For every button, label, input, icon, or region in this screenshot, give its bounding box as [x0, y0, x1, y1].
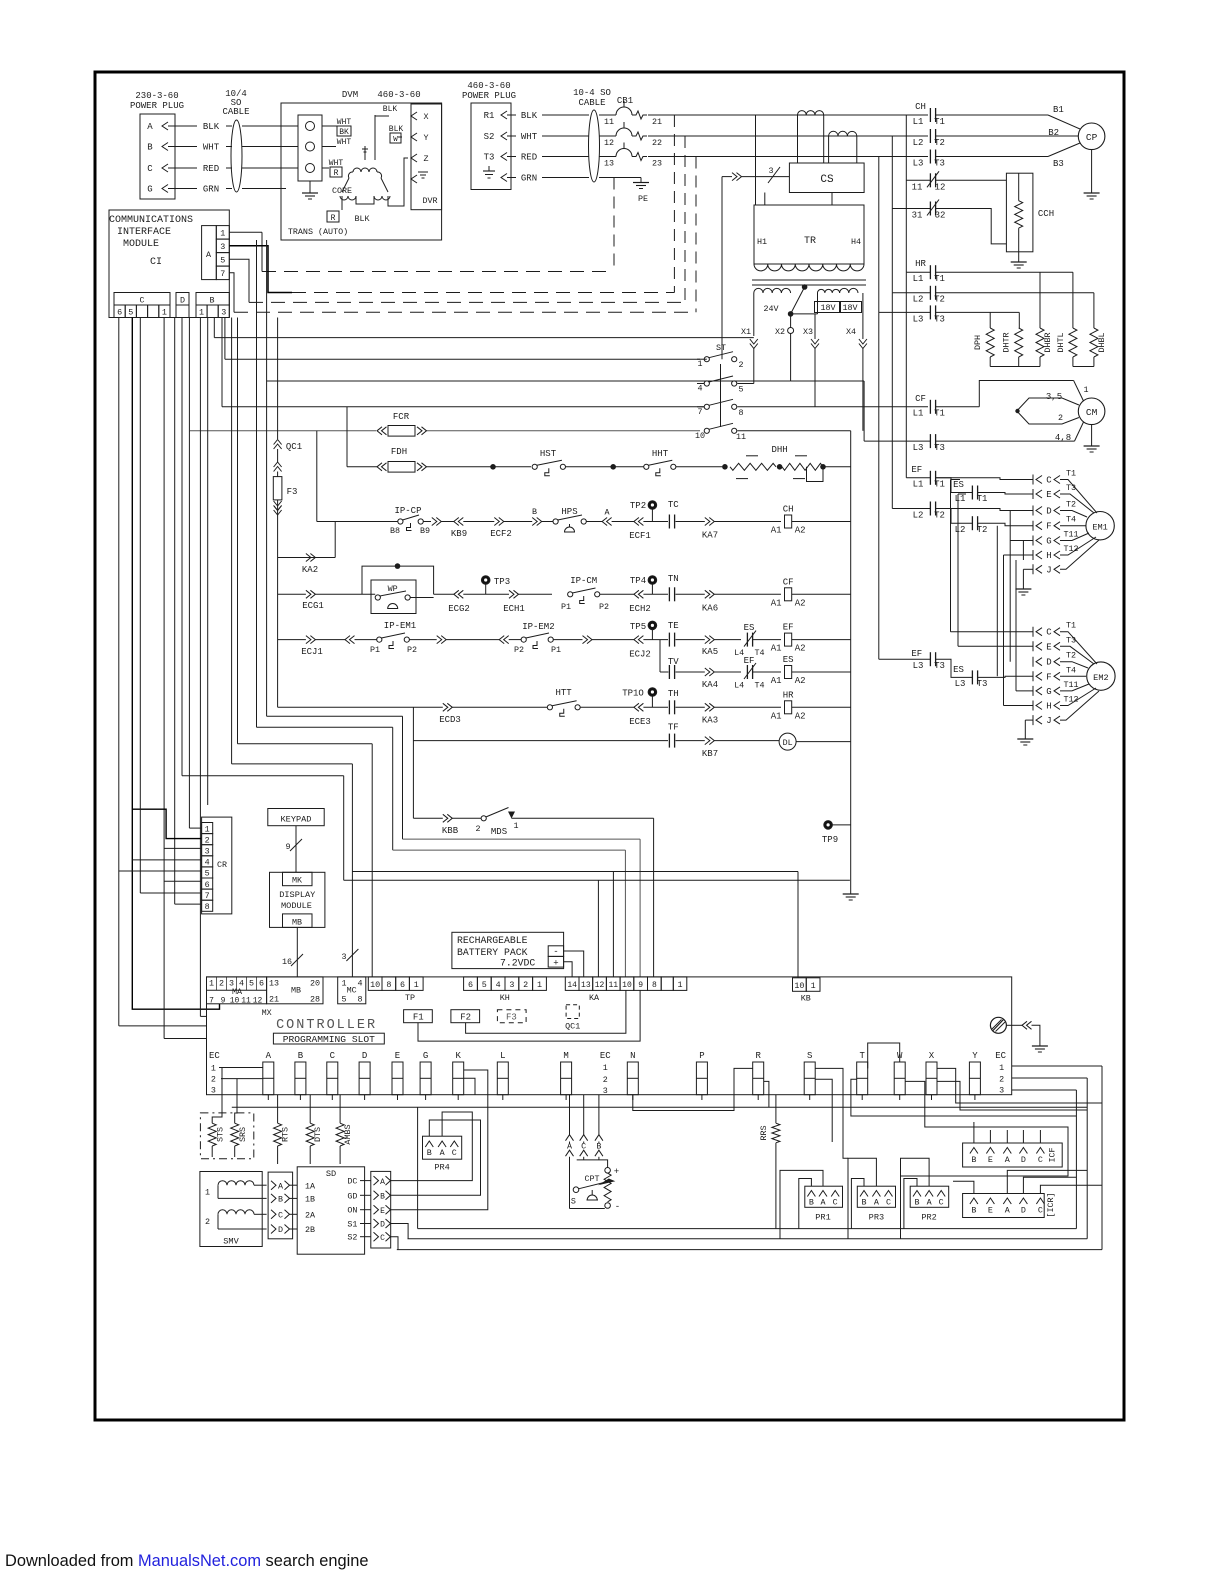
- svg-text:MK: MK: [292, 876, 303, 886]
- communications interface module CI: [109, 210, 229, 318]
- secondary windings 18V 18V: [818, 289, 840, 293]
- svg-text:F3: F3: [287, 487, 298, 497]
- svg-text:HR: HR: [915, 259, 926, 269]
- svg-text:RED: RED: [203, 164, 219, 174]
- svg-text:1: 1: [209, 979, 214, 989]
- svg-text:DVM: DVM: [342, 90, 358, 100]
- svg-text:1: 1: [199, 307, 204, 317]
- svg-text:E: E: [395, 1051, 400, 1061]
- wire R stub jog to bus: [764, 1081, 769, 1107]
- svg-text:A: A: [206, 250, 212, 260]
- core ground: [309, 181, 311, 188]
- svg-text:3: 3: [221, 307, 226, 317]
- svg-text:A2: A2: [795, 711, 806, 721]
- svg-text:2: 2: [205, 835, 210, 845]
- svg-text:COMMUNICATIONS: COMMUNICATIONS: [109, 215, 193, 226]
- svg-text:KA4: KA4: [702, 680, 718, 690]
- svg-text:T1: T1: [1066, 621, 1076, 631]
- svg-text:POWER PLUG: POWER PLUG: [462, 91, 516, 101]
- svg-text:MC: MC: [347, 986, 357, 996]
- svg-text:6: 6: [259, 979, 264, 989]
- svg-text:A: A: [1005, 1206, 1011, 1216]
- svg-text:C: C: [380, 1234, 385, 1243]
- heater bottom bus: [989, 357, 991, 367]
- svg-text:L2: L2: [955, 525, 966, 535]
- svg-text:B: B: [298, 1051, 304, 1061]
- wire S stub jogs: [815, 1068, 848, 1158]
- connector C strip of CI: [114, 293, 170, 306]
- svg-text:CR: CR: [217, 860, 227, 870]
- svg-text:ICF: ICF: [1048, 1147, 1058, 1162]
- terminal strip KH: [464, 977, 478, 991]
- svg-text:2B: 2B: [305, 1225, 315, 1235]
- svg-text:TH: TH: [668, 689, 679, 699]
- svg-text:5: 5: [128, 307, 133, 317]
- svg-text:A: A: [266, 1051, 272, 1061]
- svg-text:C: C: [939, 1198, 944, 1208]
- wire loop around ICF from W stub: [900, 1081, 1068, 1176]
- svg-text:TP5: TP5: [630, 622, 646, 632]
- svg-text:RRS: RRS: [759, 1125, 769, 1140]
- svg-text:EF: EF: [911, 465, 922, 475]
- autotransformer Y coils: [364, 146, 366, 160]
- svg-text:T4: T4: [1066, 515, 1076, 525]
- svg-text:X4: X4: [846, 327, 856, 337]
- defrost heaters DPH DHTR DHBR DHTL DHBL: [936, 271, 1073, 273]
- svg-text:MB: MB: [291, 986, 301, 996]
- svg-text:L4: L4: [734, 681, 744, 691]
- svg-text:T3: T3: [484, 153, 495, 163]
- svg-text:INTERFACE: INTERFACE: [117, 227, 171, 238]
- svg-text:11: 11: [604, 117, 614, 127]
- svg-text:S2: S2: [484, 132, 495, 142]
- svg-text:FDH: FDH: [391, 447, 407, 457]
- svg-text:KA: KA: [589, 993, 600, 1003]
- svg-text:2: 2: [205, 1217, 210, 1227]
- svg-text:A: A: [874, 1198, 880, 1208]
- grounding lug with arrow: [990, 1017, 1006, 1033]
- wire phase bus L1: [648, 114, 928, 116]
- secondary winding 24V: [754, 288, 791, 293]
- svg-text:9: 9: [221, 997, 226, 1006]
- svg-text:X: X: [929, 1051, 935, 1061]
- svg-text:DISPLAY: DISPLAY: [279, 890, 315, 900]
- contact L2-T2 first: [929, 502, 931, 516]
- svg-text:F: F: [1046, 672, 1051, 682]
- svg-text:E: E: [380, 1207, 385, 1216]
- svg-text:RECHARGEABLE: RECHARGEABLE: [457, 935, 528, 946]
- EC1 EC2 wires to A stub and sensors: [219, 1067, 263, 1069]
- svg-text:TP4: TP4: [630, 576, 646, 586]
- svg-text:A2: A2: [795, 526, 806, 536]
- svg-text:Z: Z: [423, 154, 428, 164]
- svg-text:EC: EC: [209, 1051, 220, 1061]
- SD output wire D to bus: [391, 1224, 408, 1239]
- wire F2 to KA10: [466, 990, 626, 1033]
- svg-text:ES: ES: [953, 665, 964, 675]
- svg-text:ECH2: ECH2: [629, 604, 651, 614]
- svg-text:T3: T3: [934, 443, 945, 453]
- svg-text:3: 3: [509, 980, 514, 990]
- wire loop3 from T stub around ICR: [417, 1107, 419, 1228]
- svg-text:H: H: [1046, 702, 1051, 712]
- svg-text:T1: T1: [934, 274, 945, 284]
- stub tail wires: [267, 1095, 269, 1100]
- current sensor pickup coil on L1: [798, 111, 824, 115]
- svg-text:13: 13: [604, 159, 614, 169]
- programming slot: [273, 1033, 384, 1044]
- svg-text:P2: P2: [514, 645, 524, 655]
- svg-text:A: A: [820, 1198, 826, 1208]
- svg-text:11: 11: [608, 981, 618, 990]
- svg-text:KB7: KB7: [702, 749, 718, 759]
- connector CR: [202, 817, 232, 914]
- svg-text:7: 7: [220, 269, 225, 279]
- SD output connector strip: [371, 1171, 391, 1248]
- svg-text:ECD3: ECD3: [439, 715, 461, 725]
- svg-text:SMV: SMV: [223, 1237, 239, 1247]
- ground at CM: [1091, 425, 1093, 441]
- svg-text:ST: ST: [716, 343, 726, 353]
- svg-text:6: 6: [205, 880, 210, 890]
- svg-text:T2: T2: [977, 525, 988, 535]
- plug PR1: [805, 1186, 843, 1207]
- svg-text:DHTL: DHTL: [1056, 332, 1066, 352]
- svg-text:12: 12: [604, 138, 614, 148]
- svg-text:GRN: GRN: [521, 174, 537, 184]
- svg-text:TN: TN: [668, 574, 679, 584]
- svg-text:5: 5: [482, 980, 487, 990]
- PE ground: [599, 177, 641, 179]
- svg-text:EM1: EM1: [1092, 523, 1107, 533]
- svg-text:D: D: [278, 1225, 283, 1235]
- svg-text:CB1: CB1: [617, 96, 633, 106]
- svg-text:A: A: [440, 1148, 446, 1158]
- svg-text:CS: CS: [820, 174, 834, 186]
- svg-text:X: X: [423, 112, 428, 122]
- svg-text:8: 8: [205, 902, 210, 912]
- svg-text:GRN: GRN: [203, 185, 219, 195]
- svg-text:HHT: HHT: [652, 449, 669, 459]
- terminal strip MB: [267, 977, 323, 1004]
- svg-text:R: R: [755, 1051, 761, 1061]
- wires 460 plug to 10-4 cable: [507, 114, 516, 116]
- svg-text:11: 11: [912, 183, 923, 193]
- capacitor TV branch: [659, 640, 661, 672]
- svg-text:HTT: HTT: [555, 688, 572, 698]
- svg-text:DHBR: DHBR: [1043, 332, 1053, 352]
- svg-text:DVR: DVR: [422, 196, 437, 206]
- svg-text:T11: T11: [1063, 680, 1078, 690]
- svg-text:10-4 SO: 10-4 SO: [573, 88, 611, 98]
- wires plug to 10/4 cable: [168, 125, 197, 127]
- svg-text:-: -: [615, 1202, 620, 1212]
- terminal strip MA: [207, 977, 267, 1004]
- svg-text:C: C: [1046, 628, 1052, 638]
- svg-text:M: M: [563, 1051, 568, 1061]
- svg-text:KB9: KB9: [451, 529, 467, 539]
- socket QC1 dashed: [566, 1005, 579, 1019]
- svg-text:BLK: BLK: [521, 111, 538, 121]
- svg-text:A2: A2: [795, 676, 806, 686]
- svg-text:A: A: [604, 508, 610, 518]
- svg-text:2A: 2A: [305, 1211, 316, 1221]
- PR1 feed hooks: [799, 1179, 812, 1229]
- svg-text:X1: X1: [741, 327, 751, 337]
- svg-text:A: A: [380, 1178, 385, 1187]
- svg-text:7: 7: [205, 891, 210, 901]
- svg-text:B8: B8: [390, 526, 400, 536]
- svg-text:8: 8: [386, 980, 391, 990]
- svg-text:KA3: KA3: [702, 716, 718, 726]
- svg-text:D: D: [180, 296, 185, 306]
- svg-text:B: B: [147, 143, 153, 153]
- svg-text:13: 13: [269, 979, 279, 989]
- svg-text:E: E: [1046, 642, 1051, 652]
- svg-text:P2: P2: [599, 602, 609, 612]
- row KBB MDS: [413, 817, 442, 819]
- svg-text:D: D: [362, 1051, 367, 1061]
- ladder right rail: [850, 431, 852, 889]
- svg-text:6: 6: [117, 307, 122, 317]
- svg-text:B: B: [380, 1193, 385, 1202]
- svg-text:11: 11: [736, 432, 746, 442]
- svg-text:C: C: [452, 1148, 457, 1158]
- SMV connector strip: [268, 1172, 293, 1239]
- misc stub routing: [464, 1078, 475, 1094]
- wire T stub to W stub loop: [868, 1043, 900, 1068]
- svg-text:T2: T2: [934, 511, 945, 521]
- row TF KB7 DL: [413, 740, 668, 742]
- wire X2 riser: [791, 380, 865, 382]
- svg-text:PR3: PR3: [869, 1213, 884, 1223]
- svg-text:F3: F3: [506, 1013, 517, 1023]
- svg-text:MB: MB: [292, 918, 302, 928]
- row ECD3/KA3: HTT TP10 ECE3 TH HR coil: [278, 706, 443, 708]
- svg-text:P2: P2: [407, 645, 417, 655]
- svg-text:PROGRAMMING SLOT: PROGRAMMING SLOT: [283, 1034, 375, 1045]
- svg-text:A: A: [567, 1142, 573, 1152]
- svg-text:S1: S1: [347, 1220, 357, 1230]
- svg-text:10: 10: [794, 981, 804, 991]
- vertical bus QC1-F3: [277, 318, 279, 440]
- SD output wire B to PR4: [391, 1120, 481, 1195]
- svg-text:T4: T4: [754, 681, 764, 691]
- svg-text:20: 20: [310, 979, 320, 989]
- wire N stub to R stub: [633, 1068, 753, 1110]
- svg-text:CABLE: CABLE: [578, 98, 605, 108]
- svg-text:B: B: [532, 507, 537, 517]
- svg-text:460-3-60: 460-3-60: [377, 90, 420, 100]
- relay coil EF: [785, 633, 792, 646]
- svg-text:2: 2: [738, 360, 743, 370]
- svg-text:ECF2: ECF2: [490, 529, 512, 539]
- svg-text:18V: 18V: [820, 303, 835, 313]
- svg-text:GD: GD: [347, 1191, 357, 1201]
- svg-text:3,5: 3,5: [1046, 392, 1062, 402]
- ground below CCH: [1018, 252, 1020, 257]
- sensor AMBS: [336, 1123, 344, 1146]
- svg-text:7: 7: [697, 407, 702, 417]
- svg-text:A: A: [927, 1198, 933, 1208]
- fuse F3: [274, 462, 282, 472]
- svg-text:ECJ2: ECJ2: [629, 650, 651, 660]
- svg-text:5: 5: [738, 385, 743, 395]
- svg-text:4: 4: [496, 980, 501, 990]
- svg-text:23: 23: [652, 159, 662, 169]
- svg-text:KB: KB: [801, 994, 811, 1004]
- svg-text:WHT: WHT: [337, 138, 352, 147]
- svg-text:KH: KH: [500, 993, 510, 1003]
- svg-text:460-3-60: 460-3-60: [467, 81, 510, 91]
- svg-text:D: D: [1046, 658, 1051, 668]
- svg-text:ECG1: ECG1: [302, 601, 324, 611]
- svg-text:D: D: [380, 1221, 385, 1230]
- svg-text:[ICR]: [ICR]: [1046, 1192, 1056, 1217]
- svg-text:T3: T3: [934, 159, 945, 169]
- svg-text:CH: CH: [915, 102, 926, 112]
- svg-text:A2: A2: [795, 644, 806, 654]
- svg-text:6: 6: [400, 980, 405, 990]
- svg-text:W: W: [393, 136, 398, 144]
- svg-text:T1: T1: [934, 480, 945, 490]
- svg-text:C: C: [833, 1198, 838, 1208]
- border frame: [95, 72, 1124, 1420]
- svg-text:R1: R1: [484, 111, 495, 121]
- svg-text:Y: Y: [972, 1051, 978, 1061]
- svg-text:C: C: [139, 296, 144, 306]
- svg-text:7: 7: [209, 997, 214, 1006]
- svg-text:RTS: RTS: [281, 1127, 291, 1142]
- svg-text:B: B: [971, 1155, 976, 1165]
- svg-text:HPS: HPS: [561, 507, 577, 517]
- svg-text:3: 3: [341, 952, 346, 962]
- svg-text:1: 1: [211, 1064, 216, 1074]
- feed rails for aux contacts: [905, 115, 907, 272]
- svg-text:7.2VDC: 7.2VDC: [500, 958, 535, 969]
- svg-text:2: 2: [523, 980, 528, 990]
- sensor STS: [208, 1123, 216, 1146]
- row ECG1: WP ECG2 TP3 ECH1 IP-CM TP4 ECH2 TN KA6 CF coil: [278, 593, 306, 595]
- sensor DTS: [306, 1123, 314, 1146]
- svg-text:12: 12: [253, 997, 263, 1006]
- svg-text:R: R: [334, 169, 339, 178]
- ST pole feeds: [697, 358, 707, 360]
- svg-text:KA6: KA6: [702, 604, 718, 614]
- svg-text:T3: T3: [1066, 635, 1076, 645]
- svg-text:IP-CM: IP-CM: [570, 576, 597, 586]
- svg-text:A1: A1: [771, 711, 782, 721]
- svg-text:S: S: [571, 1197, 576, 1207]
- svg-text:D: D: [1046, 507, 1051, 517]
- svg-text:5: 5: [205, 869, 210, 879]
- svg-text:HST: HST: [540, 449, 557, 459]
- svg-text:T4: T4: [1066, 665, 1076, 675]
- svg-text:21: 21: [652, 117, 662, 127]
- svg-text:11: 11: [241, 997, 251, 1006]
- EM2 feeds: [978, 676, 1033, 677]
- svg-text:18V: 18V: [842, 303, 857, 313]
- svg-text:KEYPAD: KEYPAD: [281, 815, 312, 825]
- svg-text:L3: L3: [955, 679, 966, 689]
- svg-text:ECF1: ECF1: [629, 531, 651, 541]
- svg-text:1: 1: [697, 359, 702, 369]
- aux NC contact 31-32: [892, 208, 930, 210]
- wires DVM internal: [322, 125, 341, 127]
- svg-text:TP9: TP9: [822, 835, 838, 845]
- wire F1 to KA9: [418, 990, 640, 1041]
- svg-text:2: 2: [603, 1075, 608, 1085]
- svg-text:22: 22: [652, 138, 662, 148]
- staircase net to KA9 gray: [266, 240, 268, 716]
- svg-text:B: B: [278, 1195, 283, 1205]
- svg-text:A: A: [278, 1181, 284, 1191]
- svg-text:TRANS (AUTO): TRANS (AUTO): [288, 227, 348, 237]
- svg-text:K: K: [455, 1051, 461, 1061]
- staircase net to KA10 gray: [256, 240, 258, 727]
- svg-text:24V: 24V: [763, 304, 778, 314]
- svg-text:J: J: [1046, 565, 1051, 575]
- svg-text:L1: L1: [913, 274, 924, 284]
- svg-text:EF: EF: [744, 656, 755, 666]
- row ECJ1: IP-EM1 IP-EM2 TP5 ECJ2 TE KA5 ES contact EF coil: [278, 639, 306, 641]
- junction dots and X2 tap: [802, 284, 808, 290]
- svg-text:1: 1: [811, 981, 816, 991]
- svg-text:ECJ1: ECJ1: [301, 647, 323, 657]
- svg-text:DL: DL: [783, 738, 793, 748]
- svg-text:1: 1: [205, 1188, 210, 1198]
- wire loop2 from X stub: [937, 1081, 1087, 1110]
- svg-text:5: 5: [220, 256, 225, 266]
- svg-text:STS: STS: [216, 1127, 226, 1142]
- svg-text:BATTERY PACK: BATTERY PACK: [457, 947, 528, 958]
- wire ST pole4 to ladder rail: [737, 430, 850, 432]
- svg-text:T2: T2: [934, 138, 945, 148]
- EM1 contact feeds: [936, 478, 1033, 480]
- contact L2-T2 second: [971, 516, 973, 530]
- svg-text:CP: CP: [1086, 132, 1098, 143]
- svg-text:-: -: [553, 947, 558, 957]
- test point TP9: [824, 821, 832, 829]
- svg-text:B9: B9: [420, 526, 430, 536]
- svg-text:L3: L3: [913, 443, 924, 453]
- EM2 pin J to ground: [1025, 719, 1033, 721]
- svg-text:DHTR: DHTR: [1002, 332, 1012, 352]
- svg-text:KA7: KA7: [702, 531, 718, 541]
- svg-text:32: 32: [935, 211, 946, 221]
- svg-text:TP1O: TP1O: [622, 689, 644, 699]
- svg-text:KA2: KA2: [302, 565, 318, 575]
- plug PR4: [423, 1136, 462, 1159]
- PR3 feed hooks: [851, 1179, 864, 1229]
- svg-text:P: P: [699, 1051, 704, 1061]
- svg-text:DPH: DPH: [973, 335, 983, 350]
- svg-text:CM: CM: [1086, 407, 1098, 418]
- svg-text:1: 1: [220, 229, 225, 239]
- svg-text:5: 5: [249, 979, 254, 989]
- svg-text:14: 14: [567, 981, 577, 990]
- svg-text:CF: CF: [783, 577, 794, 587]
- svg-text:PE: PE: [638, 194, 648, 204]
- svg-text:3: 3: [999, 1085, 1004, 1095]
- svg-text:2: 2: [1058, 413, 1063, 423]
- wires cable to DVM: [242, 125, 298, 127]
- svg-text:L3: L3: [913, 315, 924, 325]
- evaporator motor EM2 with pin arrows: [1032, 627, 1034, 637]
- svg-text:1: 1: [537, 980, 542, 990]
- svg-text:1: 1: [999, 1063, 1004, 1073]
- svg-text:9: 9: [285, 842, 290, 852]
